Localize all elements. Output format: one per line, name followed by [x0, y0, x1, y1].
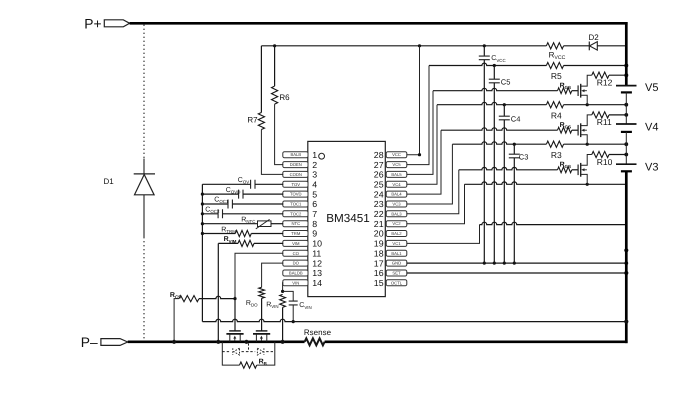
node FET V4 source on R3 line [586, 143, 589, 146]
svg-text:BAL1: BAL1 [391, 251, 402, 256]
svg-text:24: 24 [374, 189, 384, 199]
svg-text:27: 27 [374, 160, 384, 170]
svg-text:15: 15 [374, 278, 384, 288]
capacitor C_OV [251, 180, 255, 189]
svg-text:3: 3 [312, 170, 317, 180]
left B- sense bus vertical [201, 184, 203, 321]
svg-text:DOEN: DOEN [290, 162, 302, 167]
node R5 at bus [624, 64, 628, 68]
node on bus [624, 248, 628, 252]
capacitor C_OC1 plates [228, 200, 232, 209]
wire C_OC2 to pin 7 [223, 213, 284, 215]
svg-text:26: 26 [374, 170, 384, 180]
svg-text:4: 4 [312, 180, 317, 190]
svg-text:NTC: NTC [291, 221, 300, 226]
svg-text:R6: R6 [279, 93, 290, 102]
capacitor C4 [503, 105, 505, 117]
resistor R_DO [259, 287, 265, 298]
svg-text:Rsense: Rsense [304, 328, 332, 337]
svg-text:R12: R12 [597, 78, 613, 88]
svg-text:R10: R10 [597, 157, 613, 167]
svg-text:12: 12 [312, 258, 322, 268]
wire R10 to battery bus [609, 154, 626, 156]
node R3 at bus [624, 142, 628, 146]
capacitor C5 [493, 66, 495, 80]
svg-text:C5: C5 [501, 77, 511, 86]
svg-text:VC1: VC1 [392, 241, 401, 246]
resistor R_B [222, 342, 239, 365]
long B- sense line to bus [202, 319, 626, 321]
wire R5 to battery bus [564, 65, 627, 67]
capacitor C_OC2 [201, 212, 204, 215]
svg-text:GND: GND [392, 261, 401, 266]
node R6 top [273, 44, 276, 47]
node VIN split [281, 290, 284, 293]
pin 14 label box VIN [283, 280, 308, 286]
node C_VIN bottom [292, 320, 295, 323]
wire bus to C_OC2 [202, 213, 218, 215]
wire VC2 / V3- line [407, 184, 465, 223]
wire BAL5/Rgs1 line [407, 91, 433, 175]
thermistor R_NTC [201, 222, 204, 225]
resistor Rgs (V5) [558, 88, 572, 94]
wire bus to C_OVD [202, 193, 238, 195]
resistor R11 [592, 112, 609, 118]
svg-text:25: 25 [374, 180, 384, 190]
node cap bottom on GND line [483, 262, 486, 265]
top P+ rail wire [130, 22, 628, 25]
node C3 top [513, 143, 516, 146]
node GND at bus [624, 261, 628, 265]
body diode dashed link line [222, 351, 274, 353]
resistor R5 [546, 62, 563, 68]
pin 5 label box TOVD [283, 191, 308, 197]
pin 25 label box VC4 [386, 181, 407, 187]
svg-text:7: 7 [312, 209, 317, 219]
node R4 at bus [624, 103, 628, 107]
svg-text:OCTL: OCTL [391, 280, 403, 285]
wire C_OVD to pin 5 [243, 193, 283, 195]
pin 3 label box CODN [283, 171, 308, 177]
svg-text:BALB: BALB [290, 152, 301, 157]
capacitor C_OC2 plates [218, 209, 222, 218]
svg-text:R3: R3 [551, 150, 562, 160]
node C5 top [493, 64, 496, 67]
svg-text:2: 2 [312, 160, 317, 170]
node C_VCC top [483, 44, 486, 47]
resistor R6 [274, 46, 276, 86]
pin 2 label box DOEN [283, 162, 308, 168]
resistor R4 [546, 102, 563, 108]
wire CO (pin11) to FET gate [235, 253, 283, 296]
svg-text:14: 14 [312, 278, 322, 288]
node R_CS at rail [172, 340, 176, 344]
battery cell V3 [616, 163, 637, 165]
pin 16 label box SET [386, 270, 407, 276]
svg-text:TRM: TRM [291, 231, 301, 236]
wire pin28 VCC riser [407, 46, 420, 155]
pin 8 label box NTC [283, 221, 308, 227]
pin 17 label box GND [386, 260, 407, 266]
node R12 at bus [624, 73, 628, 77]
wire BAL3/Rgs3 line [407, 170, 459, 214]
capacitor C_OVD plates [239, 190, 243, 199]
op IC U1 BM3451 body [308, 141, 386, 296]
wire RVCC to D2 [564, 45, 590, 47]
svg-text:8: 8 [312, 219, 317, 229]
pin 19 label box VC1 [386, 240, 407, 246]
node sense line at bus [624, 320, 628, 324]
wire bus to C_OV [202, 183, 250, 185]
wire BAL4/Rgs2 line [407, 130, 441, 194]
svg-text:R11: R11 [597, 117, 612, 127]
node pin28 [418, 153, 421, 156]
node R11 at bus [624, 113, 628, 117]
svg-text:V4: V4 [645, 122, 658, 134]
transistor Q1 (charge FET) [229, 330, 241, 332]
node rail junction between FETs [244, 340, 248, 344]
wire C_OC1 to pin 6 [232, 203, 283, 205]
capacitor C_VIN [283, 291, 294, 301]
wire VC5/R5 line [407, 66, 429, 165]
svg-text:BM3451: BM3451 [326, 212, 370, 225]
pin 4 label box TOV [283, 181, 308, 187]
pin 1 indicator circle [319, 153, 325, 159]
capacitor C3 [513, 144, 515, 154]
svg-text:22: 22 [374, 209, 384, 219]
resistor R10 [592, 151, 609, 157]
wire R11 to battery bus [609, 114, 626, 116]
dotted wire P+ to D1 [143, 25, 145, 159]
svg-text:20: 20 [374, 229, 384, 239]
wire Rgs to Q4 gate [572, 129, 578, 131]
pin 26 label box BAL5 [386, 171, 407, 177]
svg-text:10: 10 [312, 239, 322, 249]
svg-text:D2: D2 [589, 33, 600, 42]
svg-text:1: 1 [312, 150, 317, 160]
svg-text:VIM: VIM [292, 241, 300, 246]
transistor Q5 (V5 balance FET) [577, 85, 579, 96]
node R_VIN at rail [281, 340, 285, 344]
resistor R7 [260, 46, 262, 113]
wire R4 to battery bus [564, 104, 627, 106]
wire bus to C_OC1 [202, 203, 228, 205]
svg-text:CO: CO [293, 251, 300, 256]
pin 28 label box VCC [386, 152, 407, 158]
capacitor C_VCC [483, 46, 485, 56]
bottom B-/P- rail wire (thick) [128, 340, 305, 343]
svg-text:BAL3: BAL3 [391, 211, 402, 216]
resistor R12 [592, 72, 609, 78]
wire SET(pin16) line [407, 272, 627, 274]
svg-text:TOV: TOV [292, 182, 301, 187]
svg-text:9: 9 [312, 229, 317, 239]
node cap bottom on GND line [503, 262, 506, 265]
pin 11 label box CO [283, 250, 308, 256]
wire Rgs to Q5 gate [572, 90, 578, 92]
wire R_VIM left drop to rail [217, 243, 219, 341]
wire GND line [407, 262, 627, 264]
node R10 at bus [624, 153, 628, 157]
wire DO (pin12) via R_DO [262, 263, 284, 287]
node cap bottom on GND line [513, 262, 516, 265]
resistor Rgs (V3) [558, 167, 572, 173]
pin 6 label box TOC1 [283, 201, 308, 207]
svg-text:R4: R4 [551, 110, 562, 120]
pin 7 label box TOC2 [283, 211, 308, 217]
pin 15 label box OCTL [386, 280, 407, 286]
pin 18 label box BAL1 [386, 250, 407, 256]
pin 13 label box BALDB [283, 270, 308, 276]
svg-text:DO: DO [293, 261, 300, 266]
svg-text:BALDB: BALDB [289, 271, 303, 276]
svg-text:17: 17 [374, 258, 384, 268]
svg-text:VCC: VCC [392, 152, 401, 157]
svg-text:21: 21 [374, 219, 384, 229]
resistor R_VIM [218, 242, 238, 244]
diode D2 [588, 42, 590, 51]
svg-text:R7: R7 [247, 116, 258, 125]
svg-text:R5: R5 [551, 71, 562, 81]
svg-text:BAL2: BAL2 [391, 231, 402, 236]
pin 24 label box BAL4 [386, 191, 407, 197]
svg-text:VC5: VC5 [392, 162, 401, 167]
svg-text:V5: V5 [645, 82, 658, 94]
pin 10 label box VIM [283, 240, 308, 246]
svg-text:16: 16 [374, 268, 384, 278]
resistor R_VCC [546, 43, 563, 49]
node C4 top [503, 103, 506, 106]
svg-text:TOVD: TOVD [290, 192, 302, 197]
node FET V5 source on R4 line [586, 103, 589, 106]
wire VC1 line [407, 225, 480, 244]
body diode D (Q1) [233, 348, 240, 355]
wire R12 to battery bus [609, 74, 626, 76]
pin 27 label box VC5 [386, 162, 407, 168]
svg-text:VC3: VC3 [392, 202, 401, 207]
wire R7/R6 top line y=45.5 [261, 45, 546, 47]
svg-text:C3: C3 [519, 153, 529, 162]
pin 21 label box VC2 [386, 221, 407, 227]
node pin28 riser top [418, 44, 421, 47]
pin 1 label box BALB [283, 152, 308, 158]
svg-text:BAL4: BAL4 [391, 192, 402, 197]
svg-text:VC4: VC4 [392, 182, 401, 187]
diode D1 [134, 173, 155, 175]
battery cell V4 [616, 123, 637, 125]
svg-text:11: 11 [312, 248, 321, 258]
wire VC4/R4 line [407, 105, 437, 185]
svg-text:CODN: CODN [290, 172, 302, 177]
svg-text:V3: V3 [645, 162, 658, 174]
svg-text:P–: P– [81, 335, 98, 350]
pin 20 label box BAL2 [386, 231, 407, 237]
wire R3 to battery bus [564, 143, 627, 145]
pin 22 label box BAL3 [386, 211, 407, 217]
svg-text:P+: P+ [84, 16, 101, 31]
dashed stub from rail midpoint [248, 343, 250, 351]
resistor Rgs (V4) [558, 127, 572, 133]
node cap bottom on GND line [493, 262, 496, 265]
transistor Q2 (discharge FET) [256, 330, 268, 332]
node pin16 at bus [624, 271, 628, 275]
wire C_OV to pin 4 [255, 183, 283, 185]
P- terminal [101, 339, 128, 346]
dotted wire D1 to P- rail [143, 195, 145, 237]
transistor Q3 (V3 balance FET) [577, 165, 579, 176]
svg-text:5: 5 [312, 189, 317, 199]
svg-text:13: 13 [312, 268, 322, 278]
resistor R_VIN [280, 294, 286, 307]
svg-text:TOC1: TOC1 [290, 202, 302, 207]
wire Rgs to Q3 gate [572, 169, 578, 171]
node FET V3 source on V3- line [586, 183, 589, 186]
resistor Rsense [305, 338, 325, 345]
svg-text:VIN: VIN [292, 280, 299, 285]
svg-text:18: 18 [374, 248, 384, 258]
svg-text:23: 23 [374, 199, 384, 209]
svg-text:19: 19 [374, 239, 384, 249]
svg-text:D1: D1 [104, 177, 115, 186]
transistor Q4 (V4 balance FET) [577, 125, 579, 136]
svg-text:VC2: VC2 [392, 221, 401, 226]
capacitor C_OVD [201, 193, 204, 196]
svg-text:SET: SET [392, 271, 401, 276]
P+ terminal [104, 20, 129, 27]
pin 12 label box DO [283, 260, 308, 266]
wire VC3/R3 line [407, 144, 453, 204]
battery bus bottom (thick) [625, 171, 628, 343]
svg-text:6: 6 [312, 199, 317, 209]
pin 23 label box VC3 [386, 201, 407, 207]
svg-text:TOC2: TOC2 [290, 211, 302, 216]
battery bus top (thick) [625, 22, 628, 86]
svg-text:C4: C4 [511, 115, 521, 124]
node R_VIM at rail [216, 340, 220, 344]
wire VIN (pin14) [282, 283, 285, 292]
wire D2 to battery bus [597, 45, 626, 47]
node R_CS to CO gate line [233, 297, 236, 300]
svg-text:BAL5: BAL5 [391, 172, 402, 177]
resistor R3 [546, 141, 563, 147]
svg-text:28: 28 [374, 150, 384, 160]
body diode D (Q2) [257, 348, 264, 355]
battery cell V5 [616, 85, 637, 87]
pin 9 label box TRM [283, 231, 308, 237]
resistor R_TRM [201, 232, 204, 235]
bottom rail wire continues to battery bus [325, 340, 628, 343]
capacitor C_OC1 [201, 202, 204, 205]
